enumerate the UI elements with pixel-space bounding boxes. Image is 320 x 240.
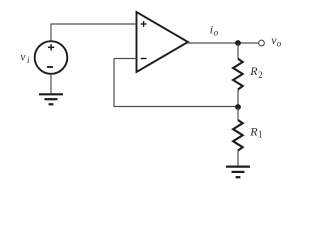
- polarity mark of source <box>47 66 53 68</box>
svg-text:1: 1 <box>258 130 263 140</box>
wire from source top to op-amp + input <box>51 24 137 42</box>
svg-text:2: 2 <box>258 70 263 80</box>
label R1 <box>249 124 262 139</box>
label v_i <box>20 49 30 65</box>
svg-text:R: R <box>249 64 258 78</box>
op-amp U1 <box>137 12 189 72</box>
svg-text:v: v <box>20 49 26 63</box>
output terminal (open circle) <box>259 40 265 46</box>
svg-text:R: R <box>249 124 258 138</box>
resistor R2 zigzag <box>233 59 243 90</box>
op-amp + input mark <box>141 21 147 27</box>
label R2 <box>249 64 262 80</box>
svg-text:o: o <box>277 39 282 49</box>
wire from R1 to ground <box>237 151 239 166</box>
resistor R1 zigzag <box>233 120 243 151</box>
output wire from op-amp to terminal <box>188 42 258 44</box>
wire from junction down to R2 <box>237 43 239 59</box>
label v_o <box>271 33 282 49</box>
voltage source v_i <box>35 41 68 74</box>
ground (left, below source) <box>39 94 63 104</box>
node: R1/R2 junction <box>235 104 241 110</box>
svg-text:o: o <box>214 28 219 38</box>
wire from R2 to node <box>237 90 239 107</box>
label i_o (output current) <box>210 23 219 38</box>
op-amp - input mark <box>141 58 147 60</box>
ground (right, below R1) <box>226 167 250 178</box>
svg-text:i: i <box>210 23 213 37</box>
svg-text:i: i <box>27 55 30 65</box>
wire from node down to R1 <box>237 107 239 120</box>
node: output junction <box>235 40 241 46</box>
feedback wire from R1/R2 node to - input <box>114 59 238 107</box>
wire from source bottom to ground <box>50 74 52 94</box>
wire into - input <box>114 58 137 60</box>
+ polarity mark of source <box>48 44 54 50</box>
